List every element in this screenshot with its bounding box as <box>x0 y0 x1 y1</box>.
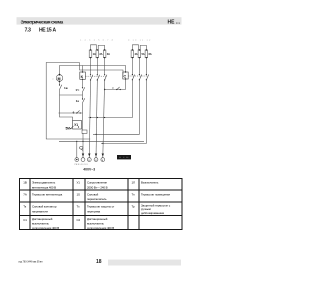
terminal X5 <box>101 158 105 162</box>
svg-text:У<: У< <box>76 88 80 92</box>
contact K1-2 <box>97 74 100 80</box>
svg-text:Электродвигатель: Электродвигатель <box>32 181 56 185</box>
svg-text:5М: 5М <box>66 126 71 130</box>
table row 3 <box>23 203 170 215</box>
svg-text:1В: 1В <box>23 181 27 185</box>
terminal X3 <box>87 158 91 162</box>
svg-text:изд.760-3446-авг.09.вн: изд.760-3446-авг.09.вн <box>18 261 43 263</box>
contact T on return <box>112 86 120 90</box>
wire control feed upper <box>80 63 124 75</box>
arrow terminal 3 <box>88 154 90 157</box>
wire right bank 3 return <box>101 80 146 144</box>
svg-text:3А: 3А <box>107 52 110 56</box>
sensor symbol above terminal 2 <box>80 147 84 151</box>
svg-text:400V~3: 400V~3 <box>83 168 95 172</box>
svg-text:выключатель: выключатель <box>87 222 104 226</box>
svg-text:1Л: 1Л <box>132 181 136 185</box>
svg-text:Тр: Тр <box>132 205 136 209</box>
svg-text:к: к <box>53 79 54 81</box>
relay box U1 <box>73 113 83 131</box>
svg-text:PE N L1 L2 L3: PE N L1 L2 L3 <box>75 164 89 166</box>
svg-text:К: К <box>81 74 84 79</box>
contactor coil K1 <box>80 66 86 81</box>
wire right bank 3 upper <box>145 58 147 75</box>
svg-text:7.3: 7.3 <box>25 28 32 34</box>
fuse F5 <box>138 49 145 58</box>
svg-text:6: 6 <box>73 111 75 115</box>
wire phase L3 lower <box>103 80 105 158</box>
arrow terminal 4 <box>95 154 97 157</box>
svg-text:Сопротивление: Сопротивление <box>87 181 107 185</box>
wire bridge left bank 2-3 <box>98 45 104 50</box>
svg-text:9·10·11·12: 9·10·11·12 <box>128 39 152 42</box>
svg-text:18: 18 <box>96 259 102 265</box>
svg-text:2000 Вт— 240 В: 2000 Вт— 240 В <box>87 186 108 190</box>
wire right bank 2 upper <box>138 58 140 75</box>
contact K2-3 <box>146 74 149 80</box>
wire bridge left bank 1-2 <box>91 45 97 50</box>
contact S1 below lamp <box>59 81 68 95</box>
junction col3 <box>104 89 105 90</box>
svg-text:Электрическая схема: Электрическая схема <box>21 19 64 25</box>
contact K1-1 <box>90 74 93 80</box>
wire phase L2 lower <box>96 80 97 158</box>
junction dots bottom nest <box>90 117 91 118</box>
svg-text:Термостат защиты от: Термостат защиты от <box>87 205 115 209</box>
table row 2 <box>23 192 170 201</box>
wire phase L1 upper <box>90 58 92 75</box>
aux box below U1 <box>82 130 87 133</box>
wire bridge right bank 1-2 <box>132 45 138 50</box>
wire spine drop terminal 2 <box>82 134 85 158</box>
svg-text:вентилятора 400 В: вентилятора 400 В <box>32 186 56 190</box>
contact K2-2 <box>139 74 142 80</box>
svg-text:переключатель: переключатель <box>87 197 107 201</box>
linkage dashed K1 <box>85 75 106 77</box>
control box outline <box>46 63 90 140</box>
fuse F2 <box>96 49 103 58</box>
header bar <box>17 17 182 24</box>
svg-text:1А: 1А <box>93 52 96 56</box>
tap wire with contact 6 <box>59 110 83 114</box>
wire phase L2 upper <box>96 58 98 75</box>
wire long bottom <box>59 140 144 142</box>
svg-text:С2: С2 <box>77 218 81 222</box>
svg-text:У1: У1 <box>77 181 81 185</box>
lamp H1 <box>53 74 63 83</box>
contact K1-3 <box>104 74 107 80</box>
svg-text:5А: 5А <box>142 52 145 56</box>
svg-text:У1: У1 <box>74 123 78 127</box>
fuse F1 <box>89 49 96 58</box>
arrow terminal 2 <box>82 154 84 157</box>
svg-text:выключатель: выключатель <box>32 222 49 226</box>
table grid <box>19 178 182 229</box>
svg-text:НЕ 15 А: НЕ 15 А <box>39 28 56 34</box>
svg-text:6А: 6А <box>149 52 152 56</box>
svg-text:сопротивления 400 В: сопротивления 400 В <box>32 226 59 230</box>
svg-text:1·2·3·4·5·6·7·8: 1·2·3·4·5·6·7·8 <box>80 39 114 42</box>
svg-text:С: С <box>123 74 126 79</box>
wire phase L3 upper <box>104 58 106 75</box>
svg-text:1S: 1S <box>77 192 81 196</box>
fuse F6 <box>145 49 152 58</box>
svg-text:Силовой: Силовой <box>87 192 99 196</box>
fuse F3 <box>103 49 110 58</box>
svg-text:С1: С1 <box>23 218 27 222</box>
wire drop terminal 1 <box>76 141 78 158</box>
svg-text:Термостат вентилятора: Термостат вентилятора <box>32 192 63 196</box>
svg-text:Термостат помещения: Термостат помещения <box>141 192 170 196</box>
svg-text:Дистанционный: Дистанционный <box>87 217 108 221</box>
svg-text:2А: 2А <box>99 52 102 56</box>
contact K2-1 <box>132 74 135 80</box>
svg-text:нагревателя: нагревателя <box>32 209 48 213</box>
arrow terminal 5 <box>102 154 104 157</box>
svg-text:1к: 1к <box>76 99 80 103</box>
svg-text:м: м <box>58 76 61 81</box>
table row 4 <box>23 217 114 230</box>
table row 1 <box>23 181 159 190</box>
footer bar <box>108 260 181 266</box>
wire inner branch <box>60 95 73 121</box>
nameplate black box <box>117 155 131 159</box>
contact 1k on spine <box>76 98 85 113</box>
linkage dashed K2 <box>128 75 148 77</box>
svg-text:Тз: Тз <box>77 205 81 209</box>
terminal X4 <box>94 158 98 162</box>
contactor coil K2 <box>123 71 128 79</box>
svg-text:4А: 4А <box>135 52 138 56</box>
svg-text:Выключатель: Выключатель <box>141 181 159 185</box>
wire bridge right bank 2-3 <box>140 45 146 50</box>
svg-text:НЕ ...: НЕ ... <box>168 19 181 25</box>
svg-text:Тк: Тк <box>23 205 27 209</box>
wire lamp branch lower <box>60 94 83 96</box>
wire right bank 1 upper <box>131 58 133 75</box>
svg-text:перегрева: перегрева <box>87 209 101 213</box>
svg-text:7А: 7А <box>23 192 27 196</box>
svg-text:1в: 1в <box>64 86 68 90</box>
wire phase L1 lower <box>89 80 90 158</box>
contact at U1 <box>70 126 79 129</box>
wire lamp feed <box>60 66 126 75</box>
wire coil2 return <box>105 79 126 90</box>
svg-text:деблокированием: деблокированием <box>141 211 164 215</box>
svg-text:Дистанционный: Дистанционный <box>32 217 53 221</box>
svg-text:Тп: Тп <box>132 192 136 196</box>
svg-text:сопротивления 400 В: сопротивления 400 В <box>87 226 114 230</box>
svg-text:Силовой контактор: Силовой контактор <box>32 205 57 209</box>
fuse F4 <box>131 49 138 58</box>
terminal X1 <box>75 158 79 162</box>
wire right bank 1 return <box>89 80 133 118</box>
wire right bank 2 return <box>93 80 139 135</box>
terminal X2 <box>81 158 85 162</box>
contact U< on spine <box>76 79 85 99</box>
